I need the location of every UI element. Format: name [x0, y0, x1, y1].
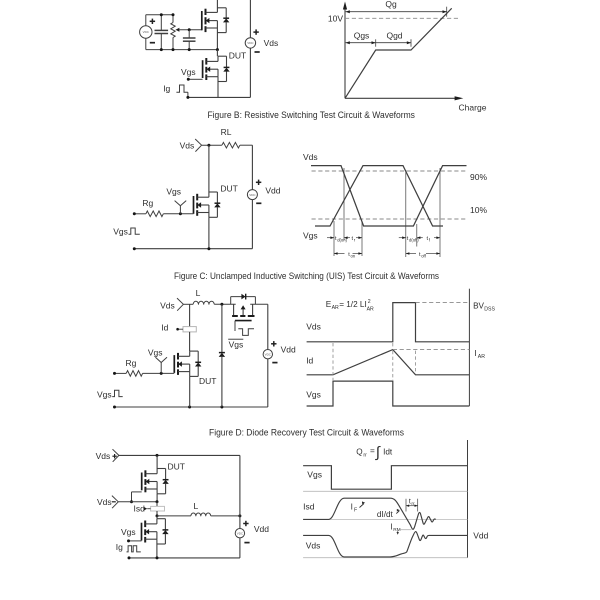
- svg-text:d(off): d(off): [409, 237, 419, 242]
- svg-text:I: I: [474, 349, 476, 358]
- svg-text:Vds: Vds: [180, 141, 195, 151]
- svg-text:I: I: [351, 502, 353, 511]
- svg-text:Vgs: Vgs: [307, 469, 322, 479]
- svg-text:Vgs: Vgs: [121, 527, 136, 537]
- svg-text:Id: Id: [306, 356, 313, 366]
- svg-text:on: on: [351, 253, 356, 258]
- svg-text:Qgd: Qgd: [386, 31, 402, 41]
- svg-text:Vgs: Vgs: [148, 347, 163, 357]
- svg-text:Vds: Vds: [160, 300, 175, 310]
- svg-text:Vds: Vds: [303, 152, 318, 162]
- svg-text:AR: AR: [332, 305, 339, 311]
- svg-text:Id: Id: [161, 323, 168, 333]
- svg-text:AR: AR: [478, 354, 485, 360]
- svg-text:Vdd: Vdd: [281, 344, 296, 354]
- svg-text:Vgs: Vgs: [97, 390, 112, 400]
- svg-text:Vgs: Vgs: [303, 231, 318, 241]
- svg-text:2: 2: [368, 299, 371, 305]
- svg-text:f: f: [429, 237, 431, 242]
- svg-text:Charge: Charge: [459, 103, 487, 113]
- svg-text:RL: RL: [221, 127, 232, 137]
- svg-text:Figure D: Diode Recovery Test: Figure D: Diode Recovery Test Circuit & …: [209, 427, 405, 437]
- svg-text:Ig: Ig: [163, 83, 170, 93]
- svg-text:r: r: [354, 237, 356, 242]
- svg-text:Qg: Qg: [385, 0, 397, 9]
- svg-text:VDC: VDC: [247, 41, 254, 45]
- svg-text:off: off: [421, 253, 426, 258]
- svg-text:= 1/2 LI: = 1/2 LI: [339, 300, 367, 309]
- svg-text:Qgs: Qgs: [354, 31, 370, 41]
- svg-text:Rg: Rg: [126, 358, 137, 368]
- svg-text:Vds: Vds: [264, 38, 279, 48]
- svg-text:Vgs: Vgs: [166, 187, 181, 197]
- svg-text:Vds: Vds: [306, 541, 321, 551]
- svg-text:DSS: DSS: [484, 306, 495, 312]
- svg-text:DUT: DUT: [229, 50, 246, 60]
- svg-text:Vgs: Vgs: [306, 390, 321, 400]
- svg-text:DUT: DUT: [199, 376, 216, 386]
- svg-text:Vgs: Vgs: [229, 339, 244, 349]
- svg-text:Vgs: Vgs: [113, 227, 128, 237]
- svg-text:Vdd: Vdd: [254, 524, 269, 534]
- svg-text:VDC: VDC: [143, 30, 150, 34]
- svg-text:Ig: Ig: [116, 542, 123, 552]
- svg-text:L: L: [194, 501, 199, 511]
- svg-text:Figure C: Unclamped Inductive: Figure C: Unclamped Inductive Switching …: [174, 271, 440, 281]
- svg-text:DUT: DUT: [168, 462, 185, 472]
- svg-text:90%: 90%: [470, 172, 487, 182]
- svg-text:Vds: Vds: [96, 451, 111, 461]
- svg-text:VDC: VDC: [265, 352, 272, 356]
- svg-text:rr: rr: [411, 501, 415, 507]
- svg-text:BV: BV: [473, 301, 484, 310]
- svg-text:L: L: [196, 288, 201, 298]
- svg-text:F: F: [354, 507, 357, 513]
- svg-text:=: =: [370, 447, 375, 456]
- svg-text:Idt: Idt: [383, 448, 393, 457]
- svg-text:VDC: VDC: [237, 531, 244, 535]
- svg-text:Vdd: Vdd: [473, 531, 488, 541]
- svg-text:dI/dt: dI/dt: [377, 510, 394, 519]
- svg-text:Figure B: Resistive Switching: Figure B: Resistive Switching Test Circu…: [207, 110, 415, 120]
- svg-text:AR: AR: [367, 307, 374, 313]
- svg-text:DUT: DUT: [220, 183, 237, 193]
- svg-text:Vdd: Vdd: [265, 185, 280, 195]
- svg-text:Q: Q: [356, 447, 362, 456]
- svg-text:rr: rr: [363, 453, 367, 459]
- svg-text:Rg: Rg: [142, 198, 153, 208]
- svg-text:∫: ∫: [375, 444, 382, 461]
- svg-text:Vds: Vds: [306, 322, 321, 332]
- svg-text:10V: 10V: [328, 13, 343, 23]
- svg-text:Vds: Vds: [97, 497, 112, 507]
- svg-text:10%: 10%: [470, 205, 487, 215]
- svg-text:VDC: VDC: [249, 193, 256, 197]
- svg-text:Isd: Isd: [303, 501, 315, 511]
- svg-text:Isd: Isd: [134, 504, 146, 514]
- svg-text:Vgs: Vgs: [181, 67, 196, 77]
